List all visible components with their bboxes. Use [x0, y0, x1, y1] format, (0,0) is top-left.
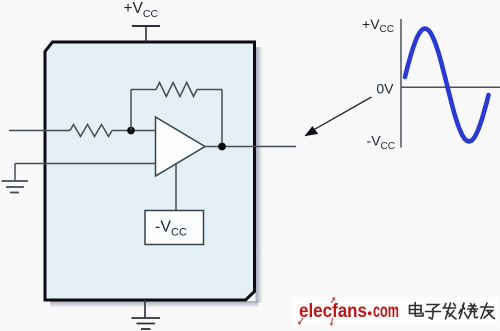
sine waveform — [405, 29, 489, 142]
char 烧 — [459, 303, 478, 319]
wire op-amp to -VCC box — [175, 164, 177, 211]
char 电 — [410, 303, 424, 317]
node A junction dot — [127, 127, 135, 135]
elecfans logo panel — [291, 298, 498, 325]
ground (bottom) — [132, 318, 161, 329]
output node dot — [218, 143, 226, 151]
svg-text:0V: 0V — [376, 81, 394, 97]
waveform 0V axis — [401, 86, 500, 88]
svg-text:com: com — [373, 301, 399, 322]
wire R1 to op-amp inverting input — [112, 130, 156, 132]
wire input left — [9, 130, 70, 132]
arrow pointing to output — [312, 97, 372, 131]
svg-text:elecfans: elecfans — [299, 301, 367, 322]
wire feedback top right — [197, 89, 222, 91]
amplifier block shadow — [0, 0, 1, 1]
resistor R1 (input) — [70, 125, 112, 137]
wire block bottom to ground — [144, 300, 146, 318]
wire feedback top left — [131, 89, 156, 91]
wire feedback up — [130, 90, 132, 131]
ground (left) — [2, 181, 29, 193]
wire output — [205, 146, 296, 148]
amplifier block body — [45, 42, 255, 300]
wire feedback down to output — [221, 90, 223, 147]
wire non-inverting input — [15, 163, 156, 165]
waveform vertical axis — [400, 19, 402, 148]
op-amp U1 — [156, 117, 206, 176]
char 子 — [426, 305, 441, 320]
+VCC power rail bar — [132, 25, 160, 27]
resistor R2 (feedback) — [156, 83, 197, 97]
char 发 — [443, 303, 456, 319]
wire +VCC to block — [145, 26, 147, 42]
Chinese tagline 电子发烧友 (drawn strokes) — [410, 303, 495, 320]
wire to ground left — [14, 164, 16, 182]
char 友 — [481, 303, 495, 319]
-VCC supply box — [145, 211, 204, 245]
